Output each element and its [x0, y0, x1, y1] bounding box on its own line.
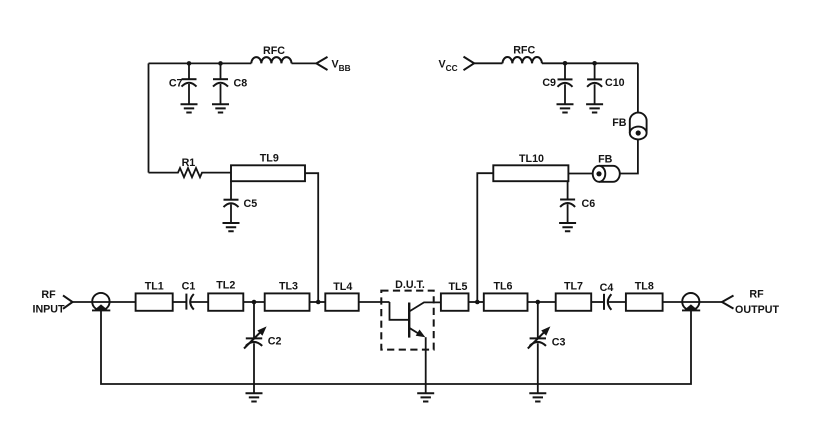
svg-text:TL10: TL10: [519, 153, 544, 165]
connector J2 (output): [682, 293, 700, 310]
node C9: [563, 61, 568, 66]
wire TL6 to TL7: [528, 301, 556, 303]
node C8: [218, 61, 223, 66]
wire TL9 right to main line: [305, 173, 318, 302]
node C7: [187, 61, 192, 66]
ground C2: [246, 393, 263, 401]
capacitor C10: [587, 63, 602, 104]
node TL3/TL4: [316, 300, 321, 305]
wire C4 to TL8: [608, 301, 626, 303]
svg-text:VBB: VBB: [332, 59, 351, 74]
svg-text:FB: FB: [598, 153, 613, 165]
transmission line TL5: [441, 293, 469, 310]
transmission line TL2: [208, 293, 243, 310]
transistor Q1 emitter arrow: [416, 330, 426, 338]
wire left bias drop: [148, 63, 150, 172]
capacitor C6: [560, 181, 575, 223]
svg-text:TL1: TL1: [145, 281, 164, 293]
ferrite bead FB (vertical): [630, 113, 647, 140]
node C10: [592, 61, 597, 66]
capacitor C9: [558, 63, 573, 104]
svg-text:OUTPUT: OUTPUT: [735, 304, 779, 316]
svg-text:FB: FB: [612, 117, 627, 129]
capacitor C4: [604, 294, 611, 310]
svg-text:C4: C4: [600, 282, 614, 294]
node TL2/C2: [252, 300, 257, 305]
wire VCC rail left of RFC: [474, 62, 502, 64]
svg-text:TL6: TL6: [493, 281, 512, 293]
resistor R1: [149, 168, 232, 177]
svg-text:TL7: TL7: [564, 281, 583, 293]
svg-text:C6: C6: [582, 198, 596, 210]
svg-text:TL9: TL9: [260, 153, 279, 165]
terminal arrow VBB: [316, 57, 327, 70]
transmission line TL4: [325, 293, 358, 310]
variable capacitor C3: [528, 302, 551, 393]
wire C1 to TL2: [190, 301, 208, 303]
ground C10: [586, 104, 603, 112]
wire TL1 to C1: [173, 301, 187, 303]
transistor Q1 emitter: [409, 328, 419, 334]
wire input feedback drop + bottom line + output riser: [101, 310, 691, 384]
svg-text:D.U.T.: D.U.T.: [395, 279, 425, 291]
wire RF input to TL1: [73, 301, 136, 303]
wire VBB rail left: [149, 62, 252, 64]
wire TL2 to TL3: [243, 301, 264, 303]
transmission line TL6: [484, 293, 528, 310]
svg-text:R1: R1: [182, 157, 196, 169]
svg-text:C3: C3: [552, 337, 566, 349]
svg-text:RFC: RFC: [263, 45, 285, 57]
transmission line TL1: [136, 293, 173, 310]
wire VCC rail right: [542, 62, 638, 64]
svg-text:INPUT: INPUT: [32, 303, 65, 315]
capacitor C5: [224, 181, 239, 223]
capacitor C8: [213, 63, 228, 104]
svg-text:TL5: TL5: [448, 281, 467, 293]
wire TL4 into DUT: [359, 301, 390, 303]
svg-text:RF: RF: [41, 289, 56, 301]
transistor Q1 collector: [409, 302, 441, 311]
ferrite bead FB (horizontal): [593, 166, 620, 182]
svg-text:TL4: TL4: [333, 281, 352, 293]
wire VCC corner down to ferrite bead: [637, 63, 639, 113]
ground C3: [529, 393, 546, 401]
svg-text:VCC: VCC: [439, 59, 458, 74]
terminal arrow RF INPUT: [63, 295, 73, 308]
wire TL8 to RF output: [663, 301, 722, 303]
node TL5/TL6: [475, 300, 480, 305]
transmission line TL3: [265, 293, 310, 310]
svg-text:C10: C10: [605, 77, 625, 89]
wire TL5 to TL6: [469, 301, 484, 303]
terminal arrow RF OUTPUT: [722, 296, 734, 309]
wire TL3 to TL4: [310, 301, 326, 303]
wire TL10 left to main line: [477, 173, 493, 302]
wire TL10 to bead: [568, 173, 592, 175]
svg-text:RF: RF: [749, 288, 764, 300]
DUT dashed box: [381, 291, 433, 350]
wire base lead: [390, 302, 410, 320]
variable capacitor C2: [244, 302, 267, 393]
svg-text:C2: C2: [268, 336, 282, 348]
wire VBB rail right of RFC: [292, 62, 317, 64]
svg-text:C8: C8: [234, 78, 248, 90]
svg-text:C5: C5: [244, 198, 258, 210]
ground emitter: [417, 393, 434, 401]
ground C7: [181, 104, 198, 112]
node TL6/C3: [536, 300, 541, 305]
ground C8: [212, 104, 229, 112]
inductor RFC (right): [503, 57, 542, 63]
capacitor C1: [186, 294, 193, 310]
transmission line TL9: [231, 165, 305, 181]
ground C6: [559, 223, 576, 231]
wire emitter to ground: [425, 337, 427, 393]
wire TL7 to C4: [591, 301, 604, 303]
svg-text:RFC: RFC: [513, 45, 535, 57]
svg-text:TL2: TL2: [216, 280, 235, 292]
wire bead to feedback row: [620, 139, 638, 173]
transmission line TL10: [493, 165, 568, 181]
transmission line TL7: [556, 293, 592, 310]
terminal arrow VCC: [464, 57, 475, 71]
inductor RFC (left): [251, 57, 291, 63]
connector J1 (input): [92, 293, 110, 311]
ground C9: [557, 104, 574, 112]
svg-text:TL8: TL8: [635, 281, 654, 293]
svg-text:C9: C9: [542, 77, 556, 89]
svg-text:TL3: TL3: [279, 281, 298, 293]
transistor Q1 base bar: [408, 303, 410, 338]
capacitor C7: [182, 63, 197, 104]
transmission line TL8: [626, 293, 663, 310]
svg-text:C7: C7: [169, 78, 183, 90]
ground C5: [223, 223, 240, 231]
svg-text:C1: C1: [182, 281, 196, 293]
